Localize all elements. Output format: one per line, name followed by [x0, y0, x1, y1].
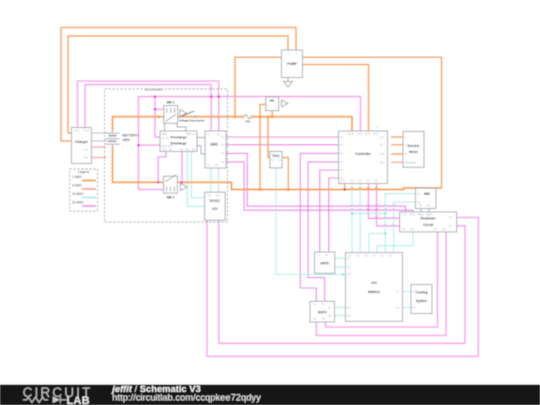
svg-text:20 AWG: 20 AWG: [72, 201, 84, 205]
svg-text:H1: H1: [208, 194, 212, 198]
svg-text:B1: B1: [434, 227, 438, 231]
svg-text:System: System: [416, 299, 428, 303]
svg-text:BAT OUT: BAT OUT: [162, 144, 173, 148]
svg-text:PG1: PG1: [357, 132, 363, 136]
svg-text:PG4: PG4: [365, 132, 371, 136]
svg-text:B4: B4: [186, 148, 190, 152]
svg-text:K5: K5: [381, 254, 385, 258]
svg-text:6 AWG: 6 AWG: [72, 184, 82, 188]
svg-text:G3: G3: [366, 179, 370, 183]
svg-text:BATTERY1: BATTERY1: [123, 134, 140, 138]
svg-text:MB 3: MB 3: [167, 196, 175, 200]
svg-text:DC/DC: DC/DC: [210, 199, 221, 203]
svg-text:H2: H2: [216, 194, 220, 198]
svg-text:IMD: IMD: [424, 192, 431, 196]
svg-text:B5: B5: [192, 148, 196, 152]
svg-text:HV IN: HV IN: [162, 136, 169, 140]
svg-text:P3: P3: [221, 152, 225, 156]
svg-text:Cooling: Cooling: [416, 291, 428, 295]
svg-text:30 A: 30 A: [340, 179, 345, 183]
svg-text:P4: P4: [221, 160, 225, 164]
svg-text:HV IN: HV IN: [347, 132, 354, 136]
svg-text:D2: D2: [322, 317, 326, 321]
svg-text:A2: A2: [347, 265, 351, 269]
svg-text:D2: D2: [215, 163, 219, 167]
svg-text:P2: P2: [449, 224, 453, 228]
svg-text:R2: R2: [328, 314, 332, 318]
svg-text:Voltage Disconnect: Voltage Disconnect: [179, 118, 205, 122]
svg-text:MB: MB: [270, 99, 275, 103]
svg-text:PG2: PG2: [410, 213, 416, 217]
svg-text:B2: B2: [443, 227, 447, 231]
svg-text:PG1: PG1: [402, 213, 408, 217]
svg-text:P1: P1: [271, 158, 275, 162]
svg-text:430V: 430V: [123, 138, 131, 142]
svg-text:S2: S2: [427, 204, 431, 208]
svg-text:C1: C1: [207, 132, 211, 136]
svg-text:G4: G4: [374, 179, 378, 183]
svg-text:B1: B1: [163, 148, 167, 152]
svg-text:A3: A3: [347, 273, 351, 277]
svg-text:P2: P2: [221, 143, 225, 147]
svg-text:Circuit: Circuit: [423, 223, 434, 227]
svg-text:Accumulator: Accumulator: [145, 87, 164, 91]
svg-text:P1: P1: [221, 135, 225, 139]
svg-text:10 AWG: 10 AWG: [72, 192, 84, 196]
svg-text:12V: 12V: [371, 281, 378, 285]
svg-text:FB: FB: [380, 161, 384, 165]
svg-text:Controller: Controller: [355, 152, 372, 156]
svg-text:D1: D1: [313, 317, 317, 321]
svg-text:http://circuitlab.com/ccqpkee7: http://circuitlab.com/ccqpkee72qdyy: [112, 391, 261, 402]
svg-text:C2: C2: [396, 306, 400, 310]
svg-text:S2: S2: [410, 227, 414, 231]
svg-text:Battery: Battery: [368, 290, 380, 294]
svg-text:G2: G2: [358, 179, 362, 183]
svg-text:750: 750: [245, 120, 250, 124]
svg-text:Precharge: Precharge: [170, 135, 186, 139]
svg-text:PG3: PG3: [373, 132, 379, 136]
svg-text:G1: G1: [350, 179, 354, 183]
svg-text:B3: B3: [180, 148, 184, 152]
svg-text:BSPD: BSPD: [318, 311, 328, 315]
svg-text:S1: S1: [419, 204, 423, 208]
svg-text:TSAL: TSAL: [272, 154, 280, 158]
svg-text:PW: PW: [380, 152, 385, 156]
svg-text:IMD1: IMD1: [418, 213, 425, 217]
svg-text:MB4 out: MB4 out: [186, 132, 196, 136]
svg-text:K4: K4: [373, 254, 377, 258]
svg-text:Legend: Legend: [78, 170, 89, 174]
svg-text:IMD2: IMD2: [426, 213, 433, 217]
svg-text:B2: B2: [169, 148, 173, 152]
svg-text:U: U: [405, 136, 407, 140]
svg-text:D1: D1: [207, 163, 211, 167]
svg-text:Electric: Electric: [408, 144, 420, 148]
svg-text:PUMP: PUMP: [287, 62, 298, 66]
svg-text:Shutdown: Shutdown: [420, 217, 435, 221]
svg-text:PU: PU: [380, 136, 384, 140]
svg-text:V: V: [405, 143, 407, 147]
svg-text:R1: R1: [328, 306, 332, 310]
svg-text:MB4: MB4: [162, 132, 168, 136]
svg-text:K6: K6: [389, 254, 393, 258]
svg-text:S1: S1: [402, 227, 406, 231]
svg-text:O1: O1: [417, 192, 421, 196]
svg-text:A: A: [376, 126, 378, 130]
svg-text:C1: C1: [396, 290, 400, 294]
svg-text:Pre: Pre: [84, 148, 89, 152]
svg-text:AC-L: AC-L: [74, 129, 80, 133]
svg-text:B2: B2: [347, 314, 351, 318]
svg-text:Feedback: Feedback: [405, 161, 417, 165]
svg-text:1 AWG: 1 AWG: [72, 175, 82, 179]
svg-text:K2: K2: [357, 254, 361, 258]
svg-text:PV: PV: [380, 143, 384, 147]
svg-text:P2: P2: [340, 143, 344, 147]
svg-text:AC-N: AC-N: [83, 129, 89, 133]
svg-text:12V: 12V: [212, 207, 219, 211]
svg-text:B1: B1: [347, 306, 351, 310]
svg-text:A1: A1: [347, 257, 351, 261]
svg-text:LAB: LAB: [67, 395, 90, 405]
svg-text:K3: K3: [365, 254, 369, 258]
svg-text:Motor: Motor: [409, 150, 419, 154]
svg-text:P3: P3: [340, 152, 344, 156]
svg-text:P4: P4: [340, 160, 344, 164]
svg-text:BMS: BMS: [210, 142, 218, 146]
svg-text:P1: P1: [449, 216, 453, 220]
svg-text:Discharge: Discharge: [171, 141, 187, 145]
svg-text:APPS: APPS: [320, 262, 329, 266]
svg-text:Charger: Charger: [75, 140, 89, 144]
svg-text:MB 4: MB 4: [167, 101, 175, 105]
svg-text:P2: P2: [278, 158, 282, 162]
svg-text:P5: P5: [340, 168, 344, 172]
svg-text:P1: P1: [340, 136, 344, 140]
